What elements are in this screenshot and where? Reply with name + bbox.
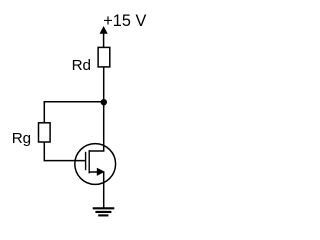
svg-text:+15 V: +15 V bbox=[103, 12, 146, 30]
svg-text:Rg: Rg bbox=[12, 130, 31, 147]
transistor Q1 body circle bbox=[75, 144, 116, 185]
wire node to upper-left corner bbox=[44, 101, 104, 103]
resistor Rg bbox=[39, 123, 51, 142]
Q1 source arrow bbox=[89, 168, 105, 176]
Q1 gate bar bbox=[85, 152, 87, 170]
wire source to ground bbox=[103, 172, 105, 208]
resistor Rd bbox=[98, 47, 110, 67]
wire down to Rg top bbox=[43, 101, 45, 123]
wire Rg bottom to gate bbox=[44, 142, 85, 161]
Q1 drain lead bbox=[89, 103, 104, 151]
wire Rd bottom to drain node bbox=[103, 67, 105, 103]
ground symbol bbox=[93, 208, 115, 215]
Q1 channel bar bbox=[88, 150, 90, 173]
node drain junction bbox=[101, 99, 107, 105]
svg-text:Rd: Rd bbox=[72, 57, 91, 74]
power supply +15 V arrow bbox=[100, 26, 108, 48]
